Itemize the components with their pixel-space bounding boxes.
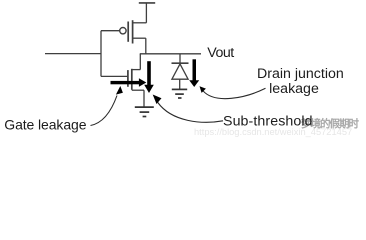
- diode cathode bar: [172, 62, 189, 64]
- PMOS gate bubble: [120, 28, 126, 34]
- wire input horizontal: [45, 53, 101, 55]
- diode triangle: [172, 64, 188, 79]
- drain junction leakage current arrow (thick down): [189, 59, 199, 87]
- gate leakage current arrow (thick right): [111, 78, 147, 86]
- PMOS gate bar: [127, 22, 129, 42]
- svg-text:https://blog.csdn.net/weixin_4: https://blog.csdn.net/weixin_45721457: [194, 127, 352, 137]
- svg-text:Gate leakage: Gate leakage: [4, 117, 86, 133]
- wire PMOS drain vertical: [145, 38, 147, 54]
- NMOS gate bar: [127, 70, 129, 87]
- wire NMOS drain lead: [132, 69, 141, 71]
- wire diode cathode lead: [179, 54, 181, 63]
- transistor M2 (NMOS): [101, 69, 144, 90]
- ground (under NMOS): [135, 107, 154, 116]
- svg-text:Vout: Vout: [207, 45, 234, 61]
- pointer arrowhead drain junction: [200, 86, 206, 93]
- VDD rail symbol: [139, 2, 155, 4]
- pointer curve from Sub-threshold label: [158, 103, 223, 123]
- wire VDD stem: [145, 3, 147, 23]
- pointer curve from Gate leakage label: [91, 96, 118, 126]
- wire NMOS gate lead: [101, 75, 127, 77]
- svg-text:leakage: leakage: [269, 81, 319, 97]
- diode D1 (drain junction): [172, 54, 189, 89]
- pointer arrowhead sub-threshold: [153, 95, 162, 105]
- wire input vertical: [100, 31, 102, 77]
- wire output node Vout: [140, 53, 201, 55]
- ground (under diode): [172, 89, 187, 98]
- wire PMOS gate lead: [101, 30, 120, 32]
- PMOS channel bar: [132, 20, 134, 43]
- wire NMOS drain vertical: [139, 54, 141, 70]
- wire NMOS source lead: [132, 89, 144, 91]
- transistor M1 (PMOS): [120, 20, 147, 43]
- NMOS channel bar: [131, 69, 133, 90]
- wire PMOS drain lead: [132, 37, 145, 39]
- pointer arrowhead gate leakage: [116, 86, 123, 95]
- wire diode anode lead: [179, 79, 181, 89]
- wire NMOS source vertical: [143, 90, 145, 107]
- wire PMOS source lead: [132, 22, 146, 24]
- pointer curve from Drain junction leakage label: [203, 88, 266, 98]
- sub-threshold leakage current arrow (thick down): [144, 61, 154, 93]
- svg-text:Drain junction: Drain junction: [257, 66, 344, 82]
